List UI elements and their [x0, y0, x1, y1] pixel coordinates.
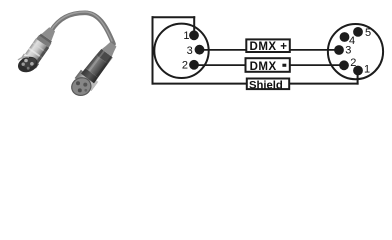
J2 pin 3: [334, 45, 344, 55]
wire: shield bottom run to Shield box and J2: [152, 83, 359, 85]
label box DMX +: [246, 39, 289, 52]
svg-text:2: 2: [182, 60, 188, 72]
male XLR face with pins: [16, 54, 40, 75]
J2 pin 5: [353, 27, 363, 37]
wire: DMX+ from J1 pin3 to J2 pin3: [200, 49, 340, 51]
male XLR connector body: [21, 24, 60, 69]
label box Shield: [247, 79, 289, 92]
J1 pin 2: [189, 60, 199, 70]
svg-text:1: 1: [364, 63, 370, 75]
label box DMX -: [246, 58, 290, 73]
svg-text:DMX: DMX: [250, 61, 277, 73]
svg-text:3: 3: [345, 45, 351, 57]
J2 pin 4: [340, 32, 350, 42]
svg-text:3: 3: [187, 45, 193, 57]
connector J2: XLR 5-pin male face: [328, 24, 383, 79]
female XLR face with holes: [69, 75, 93, 98]
J1 pin 1: [189, 30, 199, 40]
photo: XLR adapter cable (grayscale product photo): [16, 12, 122, 98]
wire: shield riser up to J2 pin 1: [357, 71, 359, 85]
cable: [51, 12, 114, 44]
female XLR connector body: [75, 38, 122, 91]
connector J1: XLR 3-pin female face: [154, 24, 208, 78]
svg-text:Shield: Shield: [249, 79, 283, 91]
wire: DMX- from J1 pin2 to J2 pin2: [194, 64, 344, 66]
wire: shield left run beside J1: [152, 16, 154, 84]
J2 pin 1: [353, 66, 363, 76]
svg-text:2: 2: [350, 57, 356, 69]
wire: shield top run above J1: [152, 16, 196, 18]
J1 pin 3: [195, 45, 205, 55]
svg-text:DMX +: DMX +: [250, 41, 288, 53]
wire: shield riser up from J1 pin 1: [193, 16, 195, 35]
svg-text:5: 5: [365, 27, 371, 39]
svg-text:1: 1: [183, 30, 189, 42]
J2 pin 2: [339, 60, 349, 70]
